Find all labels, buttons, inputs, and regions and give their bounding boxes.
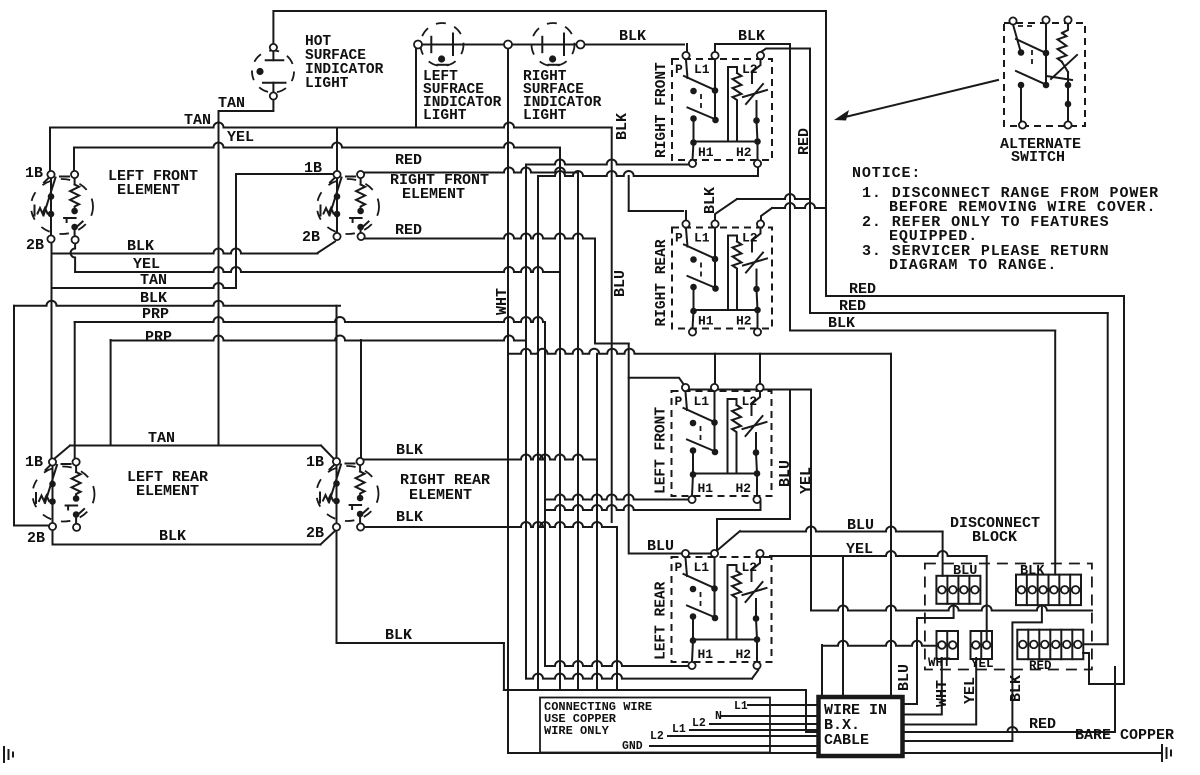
svg-text:P: P xyxy=(675,231,683,246)
wire P left front row xyxy=(686,389,811,391)
svg-text:GND: GND xyxy=(622,740,643,753)
wire WHT row xyxy=(822,641,941,646)
svg-text:L2: L2 xyxy=(650,730,664,743)
wire vertical x560 xyxy=(559,148,561,691)
svg-text:PRP: PRP xyxy=(145,329,172,346)
svg-text:TAN: TAN xyxy=(184,112,211,129)
wire H1 left rear row xyxy=(545,661,690,666)
wire left front 2B long drop to left rear 1B xyxy=(51,243,53,459)
svg-text:ELEMENT: ELEMENT xyxy=(402,186,465,203)
svg-text:H2: H2 xyxy=(736,481,752,496)
svg-text:H2: H2 xyxy=(736,647,752,662)
wire junction drop WHT xyxy=(507,46,509,753)
wire x843 link xyxy=(842,556,844,697)
wire N row xyxy=(722,715,819,717)
wire BLU P jog xyxy=(595,239,629,344)
element RIGHT FRONT heating element xyxy=(317,171,379,240)
wire PRP drop to left rear inner xyxy=(74,322,76,457)
svg-text:RED: RED xyxy=(849,281,876,298)
svg-text:H1: H1 xyxy=(698,647,714,662)
wire left front inner 2B drop xyxy=(71,243,76,272)
ground bare copper right xyxy=(1161,745,1163,761)
svg-text:BLU: BLU xyxy=(953,564,977,579)
wire RED2 drop xyxy=(1107,313,1109,644)
svg-text:RED: RED xyxy=(1029,716,1056,733)
wire vertical to right front 1B xyxy=(336,128,338,171)
switch ALTERNATE SWITCH xyxy=(1004,16,1085,128)
terminal left light west xyxy=(414,41,422,49)
wire P left front feed xyxy=(629,378,687,389)
wire L1 left front feed xyxy=(714,354,716,386)
wire H2 right front row xyxy=(538,171,758,176)
svg-text:L1: L1 xyxy=(694,394,710,409)
svg-text:P: P xyxy=(675,394,683,409)
box CONNECTING WIRE note xyxy=(540,698,770,753)
wire top bus from hot light to right side xyxy=(273,11,826,296)
wire BLK into BLK strip xyxy=(1054,331,1056,575)
svg-text:L2: L2 xyxy=(742,231,758,246)
wire BLK vertical right xyxy=(789,44,791,331)
svg-text:LIGHT: LIGHT xyxy=(523,108,567,124)
wire RED element row 2 xyxy=(364,234,595,239)
wire to right front 1B xyxy=(236,173,333,175)
svg-text:WHT: WHT xyxy=(934,680,951,707)
wire diag to right front 2B xyxy=(318,242,336,254)
svg-text:BLK: BLK xyxy=(385,627,412,644)
svg-text:YEL: YEL xyxy=(846,541,873,558)
svg-text:RED: RED xyxy=(1029,659,1052,673)
wire L1 row xyxy=(748,704,819,706)
wire RED BX hump xyxy=(1004,727,1022,732)
svg-text:RIGHT FRONT: RIGHT FRONT xyxy=(654,62,670,158)
wire BLK row right xyxy=(790,330,1055,332)
svg-text:H1: H1 xyxy=(698,145,714,160)
wire mid row to BLU drop xyxy=(508,349,891,354)
svg-text:RIGHT REAR: RIGHT REAR xyxy=(654,239,670,326)
wire YEL row 2 xyxy=(75,267,560,272)
svg-text:SWITCH: SWITCH xyxy=(1011,149,1065,166)
svg-text:2B: 2B xyxy=(27,530,45,547)
wire diag L1 left rear to BLU xyxy=(717,531,741,551)
strip RED terminal strip xyxy=(1017,630,1083,660)
wire P right rear link xyxy=(628,176,630,211)
wire H1 right front link xyxy=(525,165,527,679)
wire TAN row upper xyxy=(50,123,612,128)
switch LEFT FRONT infinite switch xyxy=(654,384,772,503)
svg-text:BLK: BLK xyxy=(619,28,646,45)
wire P right rear stub xyxy=(685,211,687,222)
svg-text:RED: RED xyxy=(395,152,422,169)
svg-text:BLK: BLK xyxy=(614,113,631,140)
svg-text:BLU: BLU xyxy=(847,517,874,534)
wire right rear 2B to BLK bottom xyxy=(336,530,338,643)
wire BLU long drop xyxy=(890,354,892,697)
wire RED2 stub to RED strip xyxy=(1085,643,1108,645)
wire TAN row 2 xyxy=(52,283,237,288)
svg-text:ELEMENT: ELEMENT xyxy=(117,182,180,199)
wire PRP row 1 xyxy=(75,317,545,322)
wire BLK to BX top xyxy=(806,690,819,732)
wire TAN drop to left front 1B xyxy=(49,128,51,171)
wire YEL row xyxy=(770,551,987,556)
arrow to alternate switch xyxy=(841,80,998,118)
terminal right light east xyxy=(577,41,585,49)
svg-text:YEL: YEL xyxy=(962,677,979,704)
svg-text:RED: RED xyxy=(839,298,866,315)
svg-text:BLK: BLK xyxy=(1020,564,1045,579)
svg-text:YEL: YEL xyxy=(133,256,160,273)
svg-text:YEL: YEL xyxy=(227,129,254,146)
wire BLU strip bottom lead xyxy=(903,605,954,704)
wire L1 right rear row xyxy=(737,194,810,199)
wire BLK right rear 2B row xyxy=(365,522,618,527)
svg-text:L1: L1 xyxy=(734,700,748,713)
wire left edge vertical xyxy=(13,306,15,526)
wire H2 right front link xyxy=(537,176,539,690)
svg-text:TAN: TAN xyxy=(148,430,175,447)
wire WHT to BX xyxy=(821,645,823,697)
svg-text:1B: 1B xyxy=(304,160,322,177)
wire RED1 row xyxy=(826,295,1124,297)
svg-text:BLK: BLK xyxy=(140,290,167,307)
svg-text:NOTICE:: NOTICE: xyxy=(852,165,921,182)
svg-text:BLK: BLK xyxy=(702,187,719,214)
strip YEL terminal strip xyxy=(971,631,993,659)
light RIGHT SURFACE INDICATOR LIGHT xyxy=(529,23,577,66)
svg-text:L2: L2 xyxy=(742,394,758,409)
wire YEL row upper xyxy=(74,143,560,148)
svg-text:WHT: WHT xyxy=(928,656,951,670)
svg-text:H2: H2 xyxy=(736,145,752,160)
switch RIGHT REAR infinite switch xyxy=(654,220,772,335)
svg-text:2B: 2B xyxy=(302,229,320,246)
svg-text:H1: H1 xyxy=(698,314,714,329)
wire left lights rail drop xyxy=(415,46,417,128)
element LEFT FRONT heating element xyxy=(31,171,93,244)
svg-text:BLK: BLK xyxy=(1008,675,1025,702)
svg-text:LIGHT: LIGHT xyxy=(423,108,467,124)
svg-text:BLU: BLU xyxy=(896,664,913,691)
svg-text:PRP: PRP xyxy=(142,306,169,323)
svg-text:YEL: YEL xyxy=(971,657,994,671)
wire PRP feed right rear inner xyxy=(360,340,362,457)
wire RED element row 1 xyxy=(364,168,578,173)
wire TAN diag to left rear 1B xyxy=(54,446,70,460)
wire BLU row xyxy=(740,527,943,532)
svg-text:LIGHT: LIGHT xyxy=(305,76,349,92)
wire row 611 xyxy=(811,606,1092,611)
wire right rear 1B drop xyxy=(336,306,338,458)
svg-text:1B: 1B xyxy=(25,165,43,182)
wire BLK mid vertical xyxy=(611,128,613,523)
svg-text:TAN: TAN xyxy=(218,95,245,112)
svg-text:BLK: BLK xyxy=(159,528,186,545)
wire H2 right front lead xyxy=(757,167,759,176)
wire L2 left front feed xyxy=(759,354,761,386)
wire RED1 bottom to RED terminal strip xyxy=(1083,653,1124,684)
svg-text:BLK: BLK xyxy=(396,509,423,526)
wire BLK left rear 2B row xyxy=(53,544,321,546)
svg-text:L1: L1 xyxy=(672,723,686,736)
svg-text:CABLE: CABLE xyxy=(824,732,869,749)
wire RED2 row xyxy=(810,312,1108,314)
svg-text:BLK: BLK xyxy=(828,315,855,332)
wire PRP2 west drop xyxy=(110,340,112,446)
wire H2 left rear diag xyxy=(752,670,758,679)
svg-text:1B: 1B xyxy=(25,454,43,471)
svg-text:TAN: TAN xyxy=(140,272,167,289)
wire BLU P vertical xyxy=(628,344,630,554)
svg-text:WHT: WHT xyxy=(494,288,511,315)
svg-text:BLU: BLU xyxy=(612,270,629,297)
wire YEL vertical left front xyxy=(810,390,812,611)
wire BLK lights drop to P right front xyxy=(686,44,688,51)
wire BLK row left front 2B xyxy=(52,249,318,254)
wire H1 right front row xyxy=(526,160,690,165)
wire GND row xyxy=(650,745,819,747)
svg-text:BLK: BLK xyxy=(396,442,423,459)
wire YEL drop to left front inner xyxy=(73,148,75,171)
wire TAN left rear row xyxy=(70,445,321,447)
svg-text:ELEMENT: ELEMENT xyxy=(136,483,199,500)
wire L1 row 2 xyxy=(690,729,819,731)
node junction between lights xyxy=(504,41,512,49)
wire L1 right rear lead BLK xyxy=(715,199,737,222)
wire BLK left rear 2B lead xyxy=(52,527,54,545)
svg-text:1B: 1B xyxy=(306,454,324,471)
wire TAN diag right end xyxy=(321,446,335,460)
switch RIGHT FRONT infinite switch xyxy=(654,52,772,167)
strip BLU terminal strip xyxy=(936,576,980,604)
wire lights row xyxy=(422,44,684,46)
switch LEFT REAR infinite switch xyxy=(654,550,772,669)
svg-text:ELEMENT: ELEMENT xyxy=(409,487,472,504)
wire RED1 drop right xyxy=(1123,296,1125,684)
svg-text:L2: L2 xyxy=(692,717,706,730)
wire YEL strip feed xyxy=(986,556,988,644)
svg-text:L2: L2 xyxy=(742,560,758,575)
svg-text:YEL: YEL xyxy=(798,467,815,494)
svg-text:H1: H1 xyxy=(698,481,714,496)
wire BLK bottom step xyxy=(503,643,505,690)
wire hot light bottom lead xyxy=(219,99,274,446)
wire BLK right front L1 row xyxy=(715,43,790,45)
ground bottom left xyxy=(3,747,5,762)
wire vertical x617 xyxy=(616,527,618,690)
wire H1 left front row xyxy=(545,495,692,500)
svg-text:BLU: BLU xyxy=(777,460,794,487)
wire vertical x578 xyxy=(577,173,579,691)
wire BARE COPPER row xyxy=(508,752,1162,754)
box WIRE IN BX CABLE xyxy=(819,697,903,756)
svg-text:L1: L1 xyxy=(694,62,710,77)
wire PRP1 drop xyxy=(544,322,546,666)
wire L2 row xyxy=(710,723,819,725)
strip WHT terminal strip xyxy=(937,631,959,659)
wire L2 right rear lead xyxy=(761,208,772,222)
wire PRP row 2 xyxy=(111,336,526,341)
svg-text:BLOCK: BLOCK xyxy=(972,529,1017,546)
svg-text:RED: RED xyxy=(395,222,422,239)
svg-text:L1: L1 xyxy=(694,560,710,575)
svg-text:BARE COPPER: BARE COPPER xyxy=(1075,727,1174,744)
wire BLU feed to L1 left rear xyxy=(717,390,790,552)
wire vertical x597 xyxy=(596,354,598,690)
wire BLK right rear 1B row xyxy=(364,455,597,460)
wire vertical x236 xyxy=(235,174,237,288)
wire YEL strip drop to BX xyxy=(903,658,977,725)
svg-text:BLK: BLK xyxy=(127,238,154,255)
wire L2 right front lead xyxy=(761,49,810,314)
wire BLK bottom row xyxy=(337,642,504,644)
element LEFT REAR heating element xyxy=(33,458,95,531)
svg-text:WIRE ONLY: WIRE ONLY xyxy=(544,724,610,738)
wire left rear 2B feed xyxy=(14,525,50,527)
svg-text:RED: RED xyxy=(796,128,813,155)
svg-text:N: N xyxy=(715,710,722,723)
wire YEL diag from L2 left rear xyxy=(760,555,770,557)
svg-text:L2: L2 xyxy=(742,62,758,77)
wire BLK strip link xyxy=(903,605,1042,741)
svg-text:2B: 2B xyxy=(306,525,324,542)
wire L2 row 2 xyxy=(668,735,819,737)
wire H2 left front lead xyxy=(760,501,762,511)
wire BLU strip drop xyxy=(942,532,944,576)
svg-text:DIAGRAM TO RANGE.: DIAGRAM TO RANGE. xyxy=(889,257,1057,274)
wire BLK bottom row 2 xyxy=(504,689,806,691)
wire P right rear row xyxy=(629,210,683,212)
wire L2 right rear row xyxy=(772,203,826,208)
svg-text:2B: 2B xyxy=(26,237,44,254)
svg-text:BLK: BLK xyxy=(738,28,765,45)
block DISCONNECT BLOCK dashed outline xyxy=(925,564,1092,670)
svg-text:LEFT REAR: LEFT REAR xyxy=(654,581,670,660)
wire BLK row 3 xyxy=(14,301,340,306)
svg-text:H2: H2 xyxy=(736,314,752,329)
wire RED BX row xyxy=(903,667,1116,732)
element RIGHT REAR heating element xyxy=(317,458,379,531)
wire H2 left rear row xyxy=(526,674,752,679)
svg-text:P: P xyxy=(675,560,683,575)
svg-text:P: P xyxy=(675,62,683,77)
wire WHT strip drop to BX xyxy=(903,658,942,715)
wire BLU P left rear row xyxy=(630,553,713,555)
wire L1 right front drop xyxy=(714,44,716,52)
light LEFT SURFACE INDICATOR LIGHT xyxy=(418,23,466,66)
strip BLK terminal strip xyxy=(1016,575,1081,606)
light HOT SURFACE INDICATOR LIGHT xyxy=(252,44,294,100)
svg-text:BLU: BLU xyxy=(647,538,674,555)
wire H2 left front row xyxy=(545,505,761,510)
svg-text:LEFT FRONT: LEFT FRONT xyxy=(654,407,670,494)
wire BLK diag to right rear 2B xyxy=(321,529,338,545)
svg-text:L1: L1 xyxy=(694,231,710,246)
